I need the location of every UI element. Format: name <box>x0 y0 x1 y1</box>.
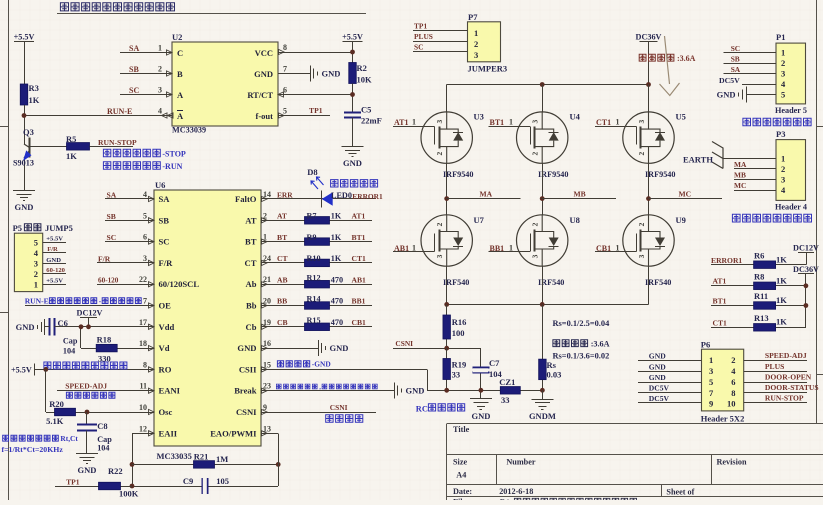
resistor R11 <box>754 302 776 310</box>
P5 pin 1 wire +5.5V <box>43 284 66 286</box>
svg-text:DC36V: DC36V <box>793 265 819 274</box>
P1 pin 5 wire GND <box>746 94 776 96</box>
svg-text:5: 5 <box>34 238 38 248</box>
power +5.5V above R2 <box>343 41 363 43</box>
P1 pin 2 wire SB <box>724 63 776 65</box>
wire R19 column <box>446 348 448 390</box>
svg-text:SA: SA <box>129 44 139 53</box>
resistor R7 <box>305 217 330 225</box>
svg-text:DC5V: DC5V <box>649 384 670 393</box>
annotation 高电平时电机-STOP <box>103 149 160 156</box>
svg-text:-STOP: -STOP <box>162 150 186 159</box>
node MC <box>646 196 651 201</box>
svg-text:RUN-STOP: RUN-STOP <box>765 394 804 403</box>
svg-text:CT: CT <box>245 258 257 268</box>
svg-text:F/R: F/R <box>47 246 58 253</box>
svg-text:P7: P7 <box>468 12 478 22</box>
annotation 霍尔元件电源输出端 <box>44 362 127 369</box>
resistor CZ1 <box>500 387 520 395</box>
annotation 最大电流:3.6A bottom <box>553 340 588 347</box>
svg-text:12: 12 <box>139 424 147 433</box>
capacitor C8 <box>77 424 97 426</box>
svg-text:ERR: ERR <box>277 191 293 200</box>
svg-text:Ab: Ab <box>246 279 257 289</box>
svg-text:R20: R20 <box>49 399 64 409</box>
svg-text:R22: R22 <box>108 466 123 476</box>
svg-text:BB: BB <box>277 297 287 306</box>
svg-text:D8: D8 <box>307 167 317 177</box>
P3 pin 4 wire MC <box>734 190 776 192</box>
node AT1 DC36V <box>804 283 809 288</box>
svg-text:GND: GND <box>343 158 362 168</box>
node rail U5 <box>646 82 651 87</box>
svg-text:4: 4 <box>143 190 147 199</box>
wire EAO vertical <box>278 433 280 486</box>
svg-text:1K: 1K <box>776 317 787 327</box>
wire AT1 to R8 to DC36V <box>711 285 754 287</box>
ground below C7 <box>470 398 492 400</box>
svg-text:1: 1 <box>158 44 162 53</box>
svg-text:10: 10 <box>139 403 147 412</box>
svg-text:R13: R13 <box>754 313 769 323</box>
svg-text:Vd: Vd <box>159 343 170 353</box>
svg-text:Header 5: Header 5 <box>775 106 807 115</box>
svg-text:PLUS: PLUS <box>765 362 784 371</box>
U2 pin 1 wire SA <box>120 52 172 54</box>
svg-text:R11: R11 <box>754 291 768 301</box>
transistor U5 IRF9540 <box>623 112 674 163</box>
power +5.5V top left <box>14 41 34 43</box>
svg-text:AT1: AT1 <box>394 118 409 127</box>
svg-text:3: 3 <box>781 175 785 185</box>
earth chassis symbol <box>712 142 723 169</box>
svg-text:2: 2 <box>731 355 735 365</box>
annotation 过流检测-GND <box>277 361 309 367</box>
capacitor C7 <box>473 367 490 369</box>
resistor R12 <box>305 280 330 288</box>
svg-text:IRF9540: IRF9540 <box>443 170 473 179</box>
P3 pin 1 wire EARTH <box>723 158 776 160</box>
svg-text:GND: GND <box>254 69 273 79</box>
svg-text:-: - <box>99 297 102 305</box>
svg-text:F/R: F/R <box>159 258 174 268</box>
svg-text:DOOR-OPEN: DOOR-OPEN <box>765 373 812 382</box>
svg-text:BT: BT <box>277 233 287 242</box>
U6 pin 4 wire SA <box>105 198 154 200</box>
svg-text:SC: SC <box>731 44 740 53</box>
sheet border left <box>8 0 10 500</box>
resistor R19 <box>443 359 451 380</box>
svg-text:1K: 1K <box>776 255 787 265</box>
current direction arrow <box>665 36 670 84</box>
svg-text:TP1: TP1 <box>309 106 323 115</box>
wire DC36V down to rail <box>648 42 650 85</box>
svg-text:1K: 1K <box>331 254 342 263</box>
svg-text:R16: R16 <box>452 317 467 327</box>
svg-text:8: 8 <box>731 388 735 398</box>
svg-text:2: 2 <box>781 58 785 68</box>
U2 pin 5 wire f-out TP1 <box>278 115 330 117</box>
svg-text:470: 470 <box>331 297 343 306</box>
U6 pin 3 wire F/R <box>97 262 154 264</box>
svg-text:1K: 1K <box>29 95 40 105</box>
ground C6 port <box>45 326 50 328</box>
svg-text:SB: SB <box>107 212 116 221</box>
wire R2 to RT/CT <box>352 84 354 112</box>
svg-text:AT1: AT1 <box>713 277 727 286</box>
wire DC12V to ERROR1 row <box>806 252 808 265</box>
svg-text:Q3: Q3 <box>23 127 34 137</box>
U6 pin 10 wire Osc <box>46 412 154 414</box>
resistor Rs <box>539 359 547 380</box>
svg-text:R19: R19 <box>452 360 467 370</box>
resistor R18 <box>96 344 117 352</box>
svg-text:C7: C7 <box>489 358 500 368</box>
P7 pin 3 wire SC <box>413 51 468 53</box>
transistor U8 IRF540 <box>517 215 568 266</box>
svg-text:R2: R2 <box>357 63 367 73</box>
svg-text:GNDM: GNDM <box>529 411 556 421</box>
wire MA stub <box>447 198 521 200</box>
node rail R19 <box>444 388 449 393</box>
wire R3 to junction <box>24 105 26 140</box>
svg-text:TP1: TP1 <box>66 478 80 487</box>
wire top rail DC36V bus <box>447 84 649 86</box>
svg-text:Date:: Date: <box>453 487 472 496</box>
svg-text:22mF: 22mF <box>361 116 382 126</box>
svg-text:3: 3 <box>781 69 785 79</box>
svg-text:60-120: 60-120 <box>46 267 65 274</box>
svg-text:3: 3 <box>158 86 162 95</box>
power DC36V <box>640 41 658 43</box>
svg-text:33: 33 <box>501 395 510 405</box>
svg-text:R3: R3 <box>29 83 39 93</box>
svg-text:Sheet of: Sheet of <box>666 488 694 497</box>
node feedback R21 left <box>130 462 135 467</box>
svg-text:GND: GND <box>406 386 425 396</box>
svg-text:1K: 1K <box>776 276 787 286</box>
svg-text:Number: Number <box>506 458 535 467</box>
svg-text:JUMP5: JUMP5 <box>45 223 73 233</box>
svg-text:SB: SB <box>731 55 740 64</box>
svg-text:5: 5 <box>143 211 147 220</box>
node C9 left <box>130 484 135 489</box>
svg-text:5: 5 <box>283 107 287 116</box>
svg-text:1: 1 <box>781 48 785 58</box>
svg-text:SC: SC <box>129 86 139 95</box>
node rail Rs bottom <box>540 388 545 393</box>
P1 pin 1 wire SC <box>724 52 776 54</box>
svg-text:1: 1 <box>709 355 713 365</box>
svg-text:CB1: CB1 <box>352 318 367 327</box>
U2 pin 3 wire SC <box>120 94 172 96</box>
annotation 电机三相驱动接口 <box>732 214 811 222</box>
svg-text:Break: Break <box>234 386 257 396</box>
U6 pin 19 wire Cb to CB1 <box>261 326 372 328</box>
svg-text:f-out: f-out <box>256 111 274 121</box>
wire U3 source to MA node <box>446 163 448 215</box>
svg-text:2012-6-18: 2012-6-18 <box>499 487 533 496</box>
svg-text:IRF9540: IRF9540 <box>645 170 675 179</box>
svg-text:Rs=0.1/3.6=0.02: Rs=0.1/3.6=0.02 <box>553 352 610 361</box>
wire EAII feedback vertical <box>132 433 134 486</box>
svg-text:1K: 1K <box>776 295 787 305</box>
resistor R6 <box>754 261 776 269</box>
op-amp U2 MC33039 body <box>172 42 278 126</box>
svg-text:P3: P3 <box>776 129 785 139</box>
P7 pin 1 wire TP1 <box>413 30 468 32</box>
wire DC36V vertical <box>805 274 807 328</box>
svg-text:Header 5X2: Header 5X2 <box>701 414 745 424</box>
svg-text:+5.5V: +5.5V <box>342 32 363 41</box>
svg-text:DOOR-STATUS: DOOR-STATUS <box>765 383 819 392</box>
P5 pin 3 wire GND <box>43 263 66 265</box>
U6 pin 6 wire SC <box>105 241 154 243</box>
svg-text:f=1/Rt*Ct=20KHz: f=1/Rt*Ct=20KHz <box>2 445 64 454</box>
svg-text:11: 11 <box>139 382 147 391</box>
svg-text:SA: SA <box>159 194 171 204</box>
svg-text:7: 7 <box>143 297 147 306</box>
ground C8 <box>76 453 98 455</box>
svg-text:R14: R14 <box>307 295 321 304</box>
svg-text:RC: RC <box>416 405 428 414</box>
wire C8 to ground <box>86 431 88 454</box>
node MA <box>444 196 449 201</box>
svg-text:60/120SCL: 60/120SCL <box>159 279 200 289</box>
U2 pin 6 wire RT/CT <box>278 94 353 96</box>
wire Rs column <box>542 304 544 390</box>
svg-text:105: 105 <box>216 476 229 486</box>
svg-text:AT: AT <box>277 212 287 221</box>
svg-text:U5: U5 <box>676 112 686 122</box>
svg-text:104: 104 <box>63 347 75 356</box>
svg-text:P6: P6 <box>701 340 710 350</box>
P5 pin 4 wire F/R <box>43 252 66 254</box>
svg-text:EANI: EANI <box>159 386 181 396</box>
U6 pin 17 wire Vdd <box>57 326 155 328</box>
svg-text:2: 2 <box>637 151 646 155</box>
svg-text:JUMPER3: JUMPER3 <box>468 64 508 74</box>
svg-text:P1: P1 <box>776 32 785 42</box>
annotation 电机传感器接口 <box>743 118 811 126</box>
svg-text:A4: A4 <box>456 471 466 480</box>
svg-text:5: 5 <box>709 377 713 387</box>
svg-text:2: 2 <box>781 164 785 174</box>
U6 pin 21 wire Ab to AB1 <box>261 284 372 286</box>
node CSNI R16 <box>444 346 449 351</box>
P3 pin 3 wire MB <box>734 179 776 181</box>
op-amp U6 MC33035 body <box>154 190 261 446</box>
capacitor C5 <box>344 112 361 114</box>
svg-text:R18: R18 <box>97 335 112 345</box>
P7 pin 2 wire PLUS <box>413 41 468 43</box>
sheet title 电机控制及与主板的接口 <box>60 3 174 11</box>
svg-text:1K: 1K <box>66 151 77 161</box>
resistor R21 <box>194 461 215 469</box>
svg-text:Cap: Cap <box>63 337 78 346</box>
svg-text:0.03: 0.03 <box>547 370 562 380</box>
svg-text:R12: R12 <box>307 273 321 282</box>
svg-text:MB: MB <box>734 171 746 180</box>
svg-text:GND: GND <box>330 343 349 353</box>
svg-text:Header 4: Header 4 <box>775 203 807 212</box>
wire MC stub <box>649 198 723 200</box>
svg-text:OE: OE <box>159 301 172 311</box>
U6 pin arrows <box>149 196 155 201</box>
U6 pin 8 wire RO <box>34 369 154 371</box>
svg-text::3.6A: :3.6A <box>591 340 610 349</box>
svg-text:GND: GND <box>649 352 666 361</box>
transistor U7 IRF540 <box>421 215 472 266</box>
svg-text:B: B <box>177 69 183 79</box>
svg-text:3: 3 <box>637 119 646 123</box>
svg-text:GND: GND <box>649 363 666 372</box>
annotation 低电平时电机-RUN <box>103 162 160 169</box>
svg-text:C5: C5 <box>361 105 371 115</box>
wire U4 drain <box>542 85 544 112</box>
svg-text:U6: U6 <box>155 180 165 190</box>
svg-text:Rt,Ct: Rt,Ct <box>60 434 78 443</box>
U6 pin 9 wire CSNI <box>261 412 376 414</box>
svg-text:3: 3 <box>474 50 478 60</box>
svg-text:R5: R5 <box>66 134 76 144</box>
svg-text:BT1: BT1 <box>490 118 505 127</box>
svg-text:104: 104 <box>97 444 109 453</box>
svg-text:2: 2 <box>474 39 478 49</box>
svg-text:10: 10 <box>727 399 736 409</box>
U6 pin 1 wire BT to BT1 <box>261 241 372 243</box>
svg-text:1M: 1M <box>216 454 228 464</box>
svg-text:R7: R7 <box>307 212 317 221</box>
U6 pin 14 wire FaltO ERR <box>261 198 376 200</box>
svg-text:P5: P5 <box>13 223 22 233</box>
svg-text:LED0: LED0 <box>331 191 352 200</box>
svg-text:SB: SB <box>159 215 170 225</box>
svg-text:60-120: 60-120 <box>98 277 119 285</box>
U6 pin 11 wire EANI SPEED-ADJ <box>57 390 154 392</box>
svg-text:-RUN: -RUN <box>162 162 182 171</box>
svg-text:SB: SB <box>129 65 139 74</box>
transistor U3 IRF9540 <box>421 112 472 163</box>
wire C9 row <box>132 486 278 488</box>
svg-text:GND: GND <box>717 90 736 100</box>
svg-text:2: 2 <box>435 151 444 155</box>
svg-text:BT: BT <box>245 237 257 247</box>
ground below C5 <box>342 146 364 148</box>
resistor R22 <box>99 482 121 490</box>
node feedback R21 right <box>276 462 281 467</box>
svg-text:RO: RO <box>159 364 172 374</box>
svg-text:BT1: BT1 <box>713 297 727 306</box>
wire +5.5V to R3 <box>24 42 26 85</box>
svg-text:3: 3 <box>637 254 646 258</box>
svg-text:1: 1 <box>616 118 620 127</box>
svg-text:R6: R6 <box>754 251 764 261</box>
resistor R9 <box>305 238 330 246</box>
svg-text:1: 1 <box>509 118 513 127</box>
svg-text:CSNI: CSNI <box>330 403 348 412</box>
svg-text:GND: GND <box>649 373 666 382</box>
wire U7 source to bottom rail <box>446 266 448 304</box>
svg-text:1K: 1K <box>331 212 342 221</box>
svg-text:100: 100 <box>452 328 465 338</box>
U6 pin 2 wire AT to AT1 <box>261 220 372 222</box>
svg-text:MA: MA <box>480 190 493 199</box>
svg-text:Osc: Osc <box>159 407 173 417</box>
svg-text:Vdd: Vdd <box>159 322 175 332</box>
svg-text:3: 3 <box>435 119 444 123</box>
node RT/CT junction <box>350 92 355 97</box>
svg-text:DC5V: DC5V <box>719 76 740 85</box>
svg-text:1: 1 <box>412 118 416 127</box>
connector P6 Header 5X2 body <box>702 349 744 411</box>
svg-text:4: 4 <box>158 107 162 116</box>
node rail U4 <box>540 82 545 87</box>
resistor R10 <box>305 259 330 267</box>
svg-text:3: 3 <box>709 366 713 376</box>
svg-text:C: C <box>177 48 183 58</box>
capacitor C9 <box>202 478 204 494</box>
U2 pin 4 wire RUN-E <box>24 115 172 117</box>
wire MB stub <box>542 198 616 200</box>
svg-text:470: 470 <box>331 318 343 327</box>
annotation 电机速度调整 <box>66 392 115 398</box>
svg-text:A: A <box>177 90 184 100</box>
P1 pin 3 wire SA <box>724 73 776 75</box>
resistor R20 <box>55 408 76 416</box>
wire CSII down to sense rail <box>427 369 429 390</box>
svg-text:GND: GND <box>322 69 341 79</box>
svg-text:Rs: Rs <box>547 360 557 370</box>
wire R5 to RUN-STOP <box>90 146 134 148</box>
svg-text:TP1: TP1 <box>414 22 427 31</box>
svg-text:7: 7 <box>283 65 287 74</box>
wire Q3 base to R5 <box>30 146 67 148</box>
svg-text:470: 470 <box>331 275 343 284</box>
svg-text:GND: GND <box>46 257 61 264</box>
svg-text:5.1K: 5.1K <box>46 416 64 426</box>
svg-text:DC5V: DC5V <box>649 394 670 403</box>
svg-text:A: A <box>177 111 184 121</box>
svg-text:100K: 100K <box>119 489 139 499</box>
node Vdd DC12V <box>86 324 91 329</box>
U6 pin 7 wire OE RUN-E <box>25 305 154 307</box>
P1 pin 4 wire DC5V <box>742 84 776 86</box>
connector P5 JUMP5 body <box>14 233 42 291</box>
svg-text:U4: U4 <box>570 112 581 122</box>
svg-text:R8: R8 <box>754 272 764 282</box>
ground U2 pin 7 <box>310 66 312 82</box>
resistor R16 <box>443 315 451 339</box>
svg-text:C6: C6 <box>58 318 68 328</box>
wire U8 source to bottom rail <box>542 266 544 304</box>
U2 pin 8 wire VCC <box>278 52 353 54</box>
U6 pin 18 wire Vd <box>81 348 154 350</box>
wire DC12V to Vdd <box>88 318 90 327</box>
annotation 过流检测 pin9 <box>326 415 363 422</box>
wire U5 drain <box>648 85 650 112</box>
svg-text:Rs=0.1/2.5=0.04: Rs=0.1/2.5=0.04 <box>553 319 611 328</box>
resistor R8 <box>754 282 776 290</box>
svg-text:EARTH: EARTH <box>683 155 713 165</box>
svg-text:CSII: CSII <box>239 364 257 374</box>
wire Rs to GNDM <box>542 390 544 399</box>
svg-text:3: 3 <box>143 254 147 263</box>
resistor R2 <box>349 63 357 84</box>
transistor U4 IRF9540 <box>517 112 568 163</box>
svg-text:U9: U9 <box>676 215 686 225</box>
svg-text:1K: 1K <box>331 233 342 242</box>
